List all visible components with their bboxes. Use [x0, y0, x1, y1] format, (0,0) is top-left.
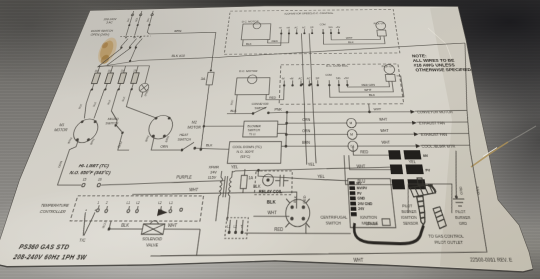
svg-text:HEAT: HEAT	[179, 132, 189, 137]
svg-text:YEL: YEL	[231, 164, 239, 170]
svg-text:WHT: WHT	[381, 140, 391, 145]
svg-text:C1: C1	[350, 145, 355, 149]
svg-text:AC: AC	[307, 77, 311, 80]
svg-text:15A: 15A	[133, 69, 139, 72]
fuse 3A body	[196, 70, 215, 151]
WHT drop from DC2	[368, 104, 371, 112]
svg-text:BRN: BRN	[302, 140, 310, 145]
svg-text:BLK: BLK	[293, 195, 298, 203]
svg-text:SIG: SIG	[336, 78, 341, 80]
hi-limit thermostat contacts	[57, 183, 171, 187]
wire F4 to M2	[118, 89, 164, 118]
RED wire to MV connector	[353, 146, 389, 155]
svg-text:PS360 GAS STD: PS360 GAS STD	[18, 242, 71, 251]
TEMPERATURE CONTROLLER label	[38, 202, 70, 215]
svg-text:SWITCH: SWITCH	[326, 219, 342, 226]
svg-text:BLK: BLK	[122, 96, 126, 102]
stain blotch	[95, 37, 120, 63]
svg-text:XFMR: XFMR	[208, 164, 219, 170]
svg-text:PURPLE: PURPLE	[176, 174, 193, 180]
pick-up 2	[382, 64, 397, 81]
svg-text:CONVEYOR MOTOR: CONVEYOR MOTOR	[417, 109, 454, 114]
PS360 title	[18, 242, 71, 251]
pilot mounting slab	[409, 185, 436, 197]
svg-text:+M: +M	[286, 28, 290, 30]
door switch pole 1	[120, 26, 132, 49]
svg-text:EXHAUST FAN: EXHAUST FAN	[419, 121, 446, 126]
svg-text:SP: SP	[316, 78, 320, 80]
svg-text:SWITCH: SWITCH	[105, 121, 119, 126]
motor2 RED lead	[266, 85, 284, 99]
svg-text:+5V: +5V	[336, 27, 341, 29]
NOTE block	[412, 53, 473, 73]
pickup2 WHT wire	[339, 81, 394, 92]
wire F3 to micro switch	[103, 89, 126, 120]
svg-text:15A: 15A	[107, 69, 113, 72]
svg-text:TEMPERATURE: TEMPERATURE	[40, 202, 70, 208]
exhaust fan row 1	[286, 117, 417, 128]
svg-text:COOL./BLWR MTR: COOL./BLWR MTR	[421, 144, 455, 150]
CONVEYOR SWITCH label	[251, 102, 269, 110]
node L1 supply stub	[128, 11, 135, 26]
svg-text:MV: MV	[423, 154, 429, 158]
svg-text:(CONVEYOR SPEED) D.C. CONTROL: (CONVEYOR SPEED) D.C. CONTROL	[284, 11, 334, 15]
terminal strip 1	[280, 29, 339, 34]
svg-text:WHT: WHT	[373, 107, 382, 112]
motor M2	[146, 115, 174, 139]
svg-text:SP: SP	[310, 27, 314, 29]
blower switch box	[243, 121, 287, 137]
svg-text:CONVEYOR: CONVEYOR	[252, 102, 269, 106]
svg-text:N.O. 650°F (343°C): N.O. 650°F (343°C)	[69, 170, 112, 176]
svg-text:L1: L1	[169, 203, 174, 206]
svg-text:AC: AC	[298, 77, 302, 80]
wire pole1 to BLK10 start	[98, 49, 122, 67]
svg-text:24V: 24V	[358, 207, 365, 212]
temperature controller box (dashed)	[70, 196, 203, 221]
connector MV pair	[388, 150, 429, 159]
svg-text:BLK: BLK	[79, 103, 84, 109]
svg-text:L2: L2	[136, 202, 141, 205]
junction 3A line to cool-down row	[200, 148, 202, 150]
svg-text:L2: L2	[158, 202, 163, 205]
transformer XFMR	[216, 171, 233, 221]
door switch linkage (dashed)	[120, 35, 150, 38]
svg-text:BRN: BRN	[146, 135, 151, 142]
controller terminals	[96, 205, 183, 212]
crease tan right edge	[471, 126, 536, 167]
rows feed bus	[285, 111, 288, 147]
svg-text:OPEN (240V): OPEN (240V)	[90, 33, 110, 37]
svg-text:MOTOR: MOTOR	[187, 125, 201, 130]
paper bottom-left highlight	[0, 185, 320, 279]
motor M1	[70, 119, 101, 143]
svg-text:M: M	[349, 121, 352, 126]
phase wire labels	[127, 17, 150, 22]
svg-text:GND: GND	[358, 198, 366, 201]
svg-text:1A: 1A	[248, 175, 253, 181]
svg-text:MV/PV: MV/PV	[357, 188, 368, 191]
PURPLE wire	[171, 174, 226, 182]
pick-up 1	[373, 21, 386, 36]
door switch label	[89, 29, 114, 37]
PILOT BURNER GRD label	[454, 210, 473, 227]
svg-text:AC: AC	[302, 26, 306, 29]
svg-text:BLK #10: BLK #10	[171, 54, 185, 58]
wire pole2 to fuse bus	[107, 48, 130, 65]
BLOWER SWITCH label	[247, 125, 262, 137]
terminal labels 2	[281, 75, 349, 81]
motor1 BLK lead	[242, 34, 281, 46]
svg-text:BLK: BLK	[246, 42, 252, 46]
pickup2 RED GRN wire	[347, 81, 389, 87]
pilot enclosure box	[404, 184, 457, 213]
M2 MOTOR label	[187, 120, 202, 130]
svg-text:BLK: BLK	[348, 40, 354, 44]
svg-text:MOTOR: MOTOR	[53, 127, 68, 132]
heat indicator light	[137, 66, 154, 98]
svg-text:BLU: BLU	[357, 178, 365, 184]
svg-text:BLK: BLK	[267, 199, 277, 205]
pilot gas elbow	[426, 185, 437, 193]
svg-text:-M: -M	[281, 78, 284, 80]
svg-text:RED GRN: RED GRN	[362, 84, 376, 88]
MICRO SWITCH label	[105, 116, 121, 125]
svg-text:3 AC: 3 AC	[106, 21, 114, 25]
svg-text:RED: RED	[272, 39, 278, 43]
svg-text:EXHAUST FAN: EXHAUST FAN	[420, 132, 447, 137]
wire controller to solenoid (BLU)	[103, 220, 112, 229]
M1 MOTOR label	[53, 122, 70, 132]
svg-text:COM: COM	[320, 24, 326, 26]
cool blower row	[286, 140, 422, 152]
module terminal labels	[357, 183, 374, 212]
wire M1 to hi-limit (ORN)	[53, 140, 79, 185]
svg-text:RED: RED	[274, 226, 283, 233]
svg-text:AC: AC	[294, 26, 298, 29]
svg-text:BURNER: BURNER	[401, 210, 417, 215]
wire micro sw out (BLU)	[116, 133, 133, 150]
arrow to L1	[157, 209, 168, 216]
door switch pole 3	[135, 37, 143, 49]
svg-text:ORN: ORN	[59, 160, 64, 168]
svg-text:SOLENOID: SOLENOID	[142, 235, 163, 242]
pickup1 BLK wire	[323, 33, 385, 45]
svg-text:WHT: WHT	[364, 87, 372, 92]
svg-text:BLK: BLK	[230, 108, 237, 113]
svg-text:PILOT OUTLET: PILOT OUTLET	[434, 239, 464, 246]
relay contact block (dashed)	[225, 218, 249, 239]
svg-text:BRN: BRN	[174, 29, 182, 33]
conveyor motor row	[287, 106, 415, 114]
TO GAS CONTROL PILOT OUTLET label	[428, 232, 467, 245]
svg-text:T: T	[240, 226, 243, 229]
svg-text:WHT: WHT	[267, 209, 277, 216]
GRN wire to ground	[446, 151, 466, 199]
wire F1 to M1	[76, 89, 94, 118]
fuse bank bus	[99, 65, 150, 67]
svg-text:SPARK: SPARK	[366, 222, 379, 227]
conveyor switch	[252, 107, 270, 114]
fuse F2	[103, 66, 116, 90]
svg-text:BLK: BLK	[93, 101, 98, 107]
terminal strip 2	[283, 80, 348, 86]
terminal labels 1	[279, 24, 341, 29]
svg-text:T1 L1: T1 L1	[249, 134, 256, 137]
svg-text:WHT: WHT	[379, 117, 388, 122]
supply voltage label	[102, 17, 117, 24]
paper top-left grey cast	[0, 0, 290, 105]
svg-text:PICK-UP: PICK-UP	[374, 22, 385, 25]
second YEL wire to module	[258, 170, 348, 180]
HI-LIMIT label	[69, 163, 114, 176]
CENTRIFUGAL SWITCH label	[320, 214, 348, 227]
svg-text:RELAY COIL: RELAY COIL	[259, 189, 283, 195]
svg-text:PILOT: PILOT	[455, 210, 467, 215]
node L2 supply stub	[136, 11, 143, 26]
PILOT BURNER IGNITION SENSOR label	[399, 204, 418, 226]
svg-text:-M: -M	[279, 28, 282, 30]
wire M2 to heat switch (ORN)	[151, 135, 183, 150]
svg-text:IGNITION: IGNITION	[401, 216, 418, 221]
svg-text:WHT: WHT	[356, 163, 366, 169]
SOLENOID VALVE label	[140, 235, 163, 248]
connector PV pair	[390, 164, 431, 174]
svg-text:T/C: T/C	[78, 236, 86, 243]
AC feed vertical 2	[309, 33, 316, 163]
pilot body	[417, 196, 428, 225]
svg-text:ORN: ORN	[302, 117, 310, 122]
svg-text:WHT: WHT	[380, 128, 389, 133]
M1 lead labels	[68, 137, 97, 145]
relay coil box (dashed)	[254, 171, 292, 195]
paper right-side shadow band	[430, 7, 533, 272]
svg-text:(93°C): (93°C)	[240, 154, 251, 160]
svg-text:GRD: GRD	[459, 186, 464, 195]
WHT wire to PV connector	[349, 155, 391, 169]
svg-text:BURNER: BURNER	[455, 216, 471, 221]
ratings line	[11, 252, 88, 261]
fuse F3	[116, 66, 129, 90]
centrifugal switch	[285, 199, 309, 228]
svg-text:VALVE: VALVE	[146, 241, 160, 248]
RED wire to module	[306, 232, 351, 234]
svg-text:WHT: WHT	[346, 36, 353, 40]
D.C. motor 1	[241, 22, 271, 40]
svg-text:GRD: GRD	[459, 222, 468, 227]
svg-text:RED: RED	[269, 95, 276, 100]
svg-text:BRN: BRN	[68, 137, 74, 144]
WHT wire mid	[129, 187, 297, 209]
svg-text:L2: L2	[233, 226, 237, 229]
svg-text:YEL: YEL	[317, 174, 325, 180]
svg-text:ORN: ORN	[302, 128, 310, 133]
module terminal comb	[349, 181, 357, 216]
heat switch	[181, 142, 230, 151]
svg-text:24V GND: 24V GND	[358, 202, 373, 207]
M2 lead labels	[145, 135, 170, 143]
svg-text:YEL: YEL	[308, 162, 316, 168]
connector MV2 pair	[392, 179, 435, 189]
wire BRN bus	[137, 25, 218, 71]
svg-text:1: 1	[97, 202, 101, 205]
solenoid feed wire BLK	[108, 222, 144, 231]
svg-text:L1: L1	[126, 202, 131, 205]
svg-text:CONTROLLER: CONTROLLER	[39, 208, 67, 214]
solenoid valve	[141, 221, 165, 235]
svg-text:BLU: BLU	[103, 220, 108, 228]
fuse F1	[89, 66, 103, 90]
svg-text:BLK: BLK	[120, 222, 129, 229]
AC feed vertical 1	[300, 33, 307, 164]
svg-text:PNK: PNK	[274, 107, 282, 112]
svg-text:HI- LIMIT (TC): HI- LIMIT (TC)	[78, 163, 111, 169]
YEL labels	[231, 159, 418, 170]
svg-text:L1: L1	[227, 226, 231, 229]
wire pole3 down	[129, 48, 136, 61]
svg-text:SWITCH: SWITCH	[177, 137, 191, 142]
svg-text:TO GAS CONTROL: TO GAS CONTROL	[428, 232, 465, 239]
svg-text:PILOT: PILOT	[402, 204, 413, 209]
svg-text:WHT: WHT	[167, 222, 178, 229]
contact terminal labels	[227, 226, 244, 229]
svg-text:BRN: BRN	[166, 136, 171, 143]
micro switch	[113, 120, 127, 133]
motor1 RED lead	[268, 33, 289, 43]
BLU wire to MV2 connector	[344, 155, 392, 184]
svg-text:15A: 15A	[120, 69, 126, 72]
YEL bus from transformer	[232, 167, 393, 172]
svg-text:D.C. CONTROL: D.C. CONTROL	[326, 63, 349, 67]
svg-text:BLU: BLU	[117, 141, 123, 148]
svg-text:PV: PV	[357, 193, 362, 196]
svg-text:15A: 15A	[94, 70, 100, 73]
wire BLK#10 main run	[98, 43, 471, 67]
svg-text:SWITCH: SWITCH	[254, 107, 266, 111]
svg-text:22500-0061 REV. E: 22500-0061 REV. E	[469, 256, 513, 264]
IGNITION MODULE label	[360, 214, 379, 227]
ground symbol	[453, 199, 466, 206]
D.C. control box 1 (dashed)	[224, 9, 400, 54]
svg-text:SENSOR: SENSOR	[403, 221, 419, 226]
WHT wire to centrifugal	[253, 209, 289, 216]
svg-text:PICK-UP: PICK-UP	[382, 65, 394, 68]
svg-text:COM: COM	[325, 75, 332, 77]
HEAT SWITCH label	[177, 132, 192, 142]
SPARK label	[365, 219, 390, 227]
svg-text:3A: 3A	[200, 77, 206, 81]
svg-text:+5V: +5V	[344, 78, 350, 80]
svg-text:GRN: GRN	[475, 186, 481, 195]
svg-text:BLK: BLK	[206, 142, 214, 147]
relay capacitor	[275, 175, 289, 187]
XFMR label	[207, 164, 219, 180]
wire solenoid WHT drop	[197, 229, 201, 255]
svg-text:CENTRIFUGAL: CENTRIFUGAL	[320, 214, 348, 221]
svg-text:BLU: BLU	[147, 18, 150, 22]
svg-text:15: 15	[82, 178, 88, 182]
svg-text:PV: PV	[425, 169, 431, 173]
pickup1 WHT wire	[331, 33, 380, 40]
svg-text:16: 16	[97, 178, 103, 182]
junction 3A line to blower switch	[203, 125, 244, 127]
WHT after solenoid	[164, 222, 201, 229]
svg-text:BLK: BLK	[369, 93, 376, 98]
svg-text:BLK: BLK	[108, 99, 112, 105]
svg-text:N.O. 300°F: N.O. 300°F	[236, 149, 254, 155]
node L3 supply stub	[148, 11, 154, 26]
D.C. control box 2 (dashed)	[279, 64, 404, 104]
RED wire bottom	[245, 224, 306, 233]
pilot terminal stem	[417, 178, 423, 185]
svg-text:YEL: YEL	[408, 159, 417, 165]
conveyor switch wire BLK	[227, 108, 252, 113]
svg-text:D.C. MOTOR: D.C. MOTOR	[239, 69, 258, 73]
fuse F4	[129, 66, 141, 90]
svg-text:SWITCH: SWITCH	[248, 129, 261, 133]
motor2 BLU lead	[230, 95, 237, 114]
svg-text:COOL DOWN (TC): COOL DOWN (TC)	[232, 144, 262, 150]
spark cable (thick)	[354, 223, 426, 244]
svg-text:115V: 115V	[208, 174, 217, 180]
svg-text:24V: 24V	[210, 169, 218, 175]
door switch pole 2	[129, 26, 140, 49]
svg-text:WHT: WHT	[353, 256, 364, 263]
svg-text:IGNITION: IGNITION	[360, 214, 378, 221]
svg-text:+M: +M	[290, 78, 294, 80]
PNK wire	[268, 107, 287, 113]
svg-text:RED: RED	[360, 149, 368, 155]
svg-text:BLU: BLU	[231, 99, 235, 105]
svg-text:MICRO: MICRO	[107, 116, 119, 121]
svg-text:2: 2	[105, 202, 109, 205]
wire F2 to M1	[90, 89, 105, 118]
svg-text:WHT: WHT	[189, 187, 199, 193]
exhaust fan row 2	[286, 128, 419, 140]
relay coil	[262, 174, 273, 186]
fuse 1A	[240, 169, 248, 193]
contact terminals	[228, 220, 244, 234]
svg-text:OTHERWISE SPECIFIED.: OTHERWISE SPECIFIED.	[415, 67, 473, 73]
svg-text:M: M	[350, 132, 353, 137]
COOL DOWN label	[231, 144, 262, 159]
svg-text:ORN: ORN	[160, 144, 169, 149]
thermocouple probe	[79, 210, 96, 236]
D.C. motor 2	[235, 75, 270, 95]
right main bus down	[151, 43, 522, 258]
controller terminal labels	[97, 202, 174, 205]
svg-text:D.C. MOTOR: D.C. MOTOR	[242, 20, 259, 24]
svg-text:208-240V 60Hz 1PH 3W: 208-240V 60Hz 1PH 3W	[11, 252, 88, 261]
fuse amp labels	[94, 69, 138, 73]
hi-limit terminal numbers	[82, 178, 103, 182]
faint crease top-right	[428, 28, 452, 60]
svg-text:SIG: SIG	[328, 27, 333, 29]
pickup2 BLK wire	[329, 76, 404, 98]
cool down box	[227, 142, 286, 164]
pilot sensor hatched	[433, 207, 447, 229]
ignition module box	[348, 179, 396, 228]
